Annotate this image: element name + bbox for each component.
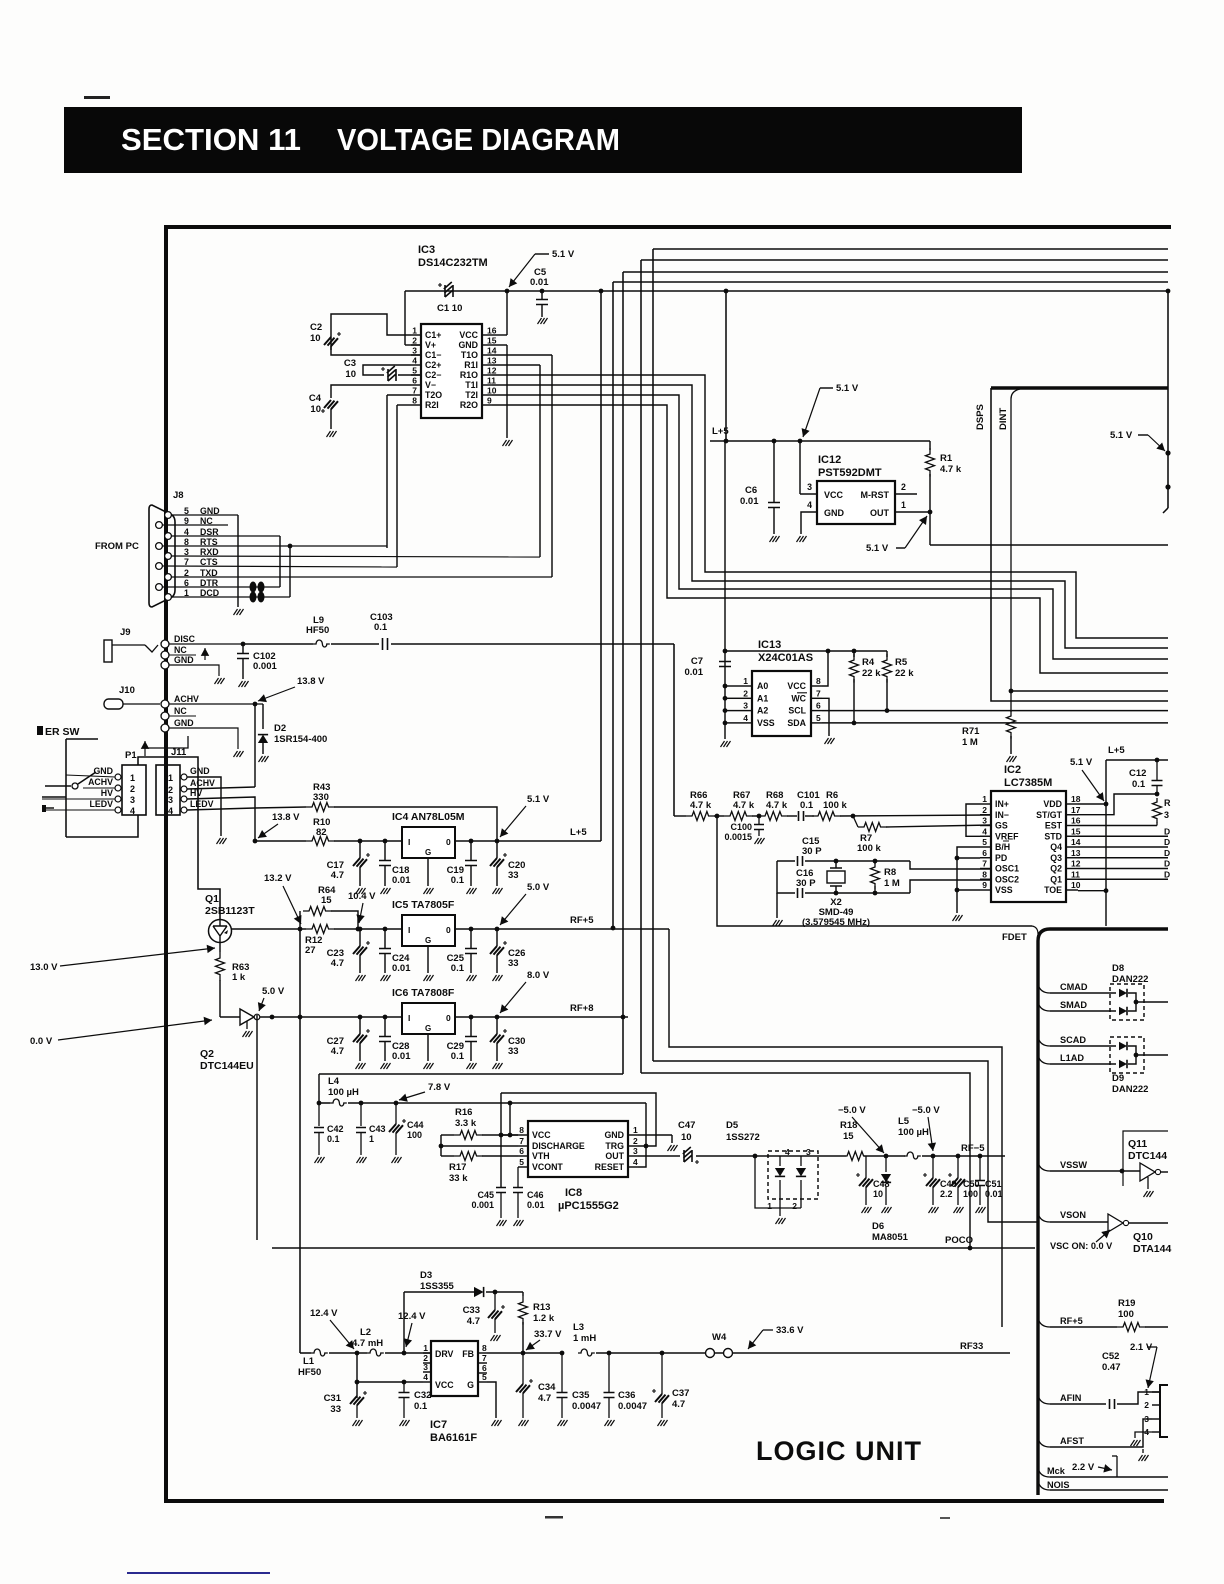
svg-text:4.7: 4.7 <box>331 958 344 969</box>
IC7 pin 3 <box>423 1371 431 1373</box>
IC right edge box (clipped) <box>1160 1385 1168 1437</box>
TRG loop over top <box>501 1093 656 1146</box>
capacitor C23 4.7 <box>358 927 363 932</box>
svg-text:Q10: Q10 <box>1133 1231 1153 1243</box>
svg-text:10: 10 <box>345 369 356 380</box>
svg-text:R19: R19 <box>1118 1298 1135 1309</box>
svg-text:12: 12 <box>487 366 497 376</box>
svg-text:J8: J8 <box>173 490 184 501</box>
svg-text:5.1 V: 5.1 V <box>1070 757 1093 768</box>
svg-text:15: 15 <box>321 895 332 906</box>
svg-text:100 k: 100 k <box>857 843 881 854</box>
svg-text:R18: R18 <box>840 1120 857 1131</box>
svg-text:4.7 k: 4.7 k <box>940 464 962 475</box>
svg-text:C1+: C1+ <box>425 330 441 340</box>
svg-text:RF+5: RF+5 <box>1060 1316 1083 1326</box>
IC3 pin 10 T2I <box>482 394 492 396</box>
svg-text:4.7: 4.7 <box>467 1316 480 1327</box>
svg-text:22 k: 22 k <box>895 668 914 679</box>
IC7 pin 4 <box>423 1381 431 1383</box>
svg-text:33.7 V: 33.7 V <box>534 1329 562 1340</box>
svg-text:C35: C35 <box>572 1390 590 1401</box>
wire J8 CTS <box>162 566 397 567</box>
svg-text:VCC: VCC <box>459 330 478 340</box>
IC3 pin 8 R2I <box>411 404 421 406</box>
svg-text:1 M: 1 M <box>884 878 900 889</box>
svg-text:13.2 V: 13.2 V <box>264 873 292 884</box>
svg-text:OUT: OUT <box>870 508 890 518</box>
wire R1I pin13 to RXD <box>492 364 540 366</box>
IC7 VCC wire <box>357 1381 423 1383</box>
IC7 G pin5 to ground <box>487 1382 496 1418</box>
page header mark <box>84 96 110 99</box>
svg-text:1: 1 <box>1144 1387 1149 1397</box>
svg-text:L+5: L+5 <box>712 426 729 437</box>
svg-text:7: 7 <box>482 1353 487 1363</box>
svg-text:4.7 k: 4.7 k <box>733 800 755 811</box>
svg-text:J10: J10 <box>119 685 135 696</box>
svg-text:1: 1 <box>423 1343 428 1353</box>
svg-text:5.1 V: 5.1 V <box>527 794 550 805</box>
title bar <box>64 107 1022 173</box>
capacitor C26 33 <box>495 927 500 932</box>
svg-text:HV: HV <box>101 788 113 798</box>
svg-text:VDD: VDD <box>1043 799 1062 809</box>
capacitor C18 0.01 <box>383 839 388 844</box>
svg-text:IC4 AN78L05M: IC4 AN78L05M <box>392 811 465 823</box>
svg-text:CTS: CTS <box>200 557 218 567</box>
IC12 pin 4 GND <box>801 512 817 534</box>
IC8 pin 6 VTH <box>518 1155 528 1157</box>
svg-text:0.1: 0.1 <box>451 875 465 886</box>
svg-text:M-RST: M-RST <box>861 490 890 500</box>
crystal X2 SMD-49 <box>834 859 839 864</box>
thick bus line DSPS/DINT <box>991 386 1168 390</box>
IC2 pin 18 VDD <box>1066 803 1078 805</box>
IC2 pin 13 Q3 <box>1066 857 1078 859</box>
J11 pin 1 GND <box>181 774 187 780</box>
svg-text:0.47: 0.47 <box>1102 1362 1121 1373</box>
svg-text:D6: D6 <box>872 1221 884 1232</box>
svg-text:1: 1 <box>412 326 417 336</box>
J9 pin GND <box>161 661 169 669</box>
IC12 pin 2 M-RST <box>895 493 917 495</box>
svg-text:RF33: RF33 <box>960 1341 983 1352</box>
svg-text:1: 1 <box>369 1134 374 1144</box>
svg-text:2: 2 <box>412 336 417 346</box>
P1 pin 3 HV <box>115 796 121 802</box>
IC8 OUT row <box>638 1155 680 1157</box>
svg-text:17: 17 <box>1071 805 1081 815</box>
J11 pin 2 ACHV <box>181 786 187 792</box>
wire DINT vertical <box>1011 389 1020 712</box>
svg-text:4: 4 <box>982 826 987 836</box>
svg-text:18: 18 <box>1071 794 1081 804</box>
svg-text:R4: R4 <box>862 657 875 668</box>
wire P1 ACHV <box>83 787 115 789</box>
svg-text:MA8051: MA8051 <box>872 1232 909 1243</box>
svg-text:4: 4 <box>168 806 173 816</box>
J8 pin 2 TXD <box>165 574 172 581</box>
svg-text:IC12: IC12 <box>818 454 841 466</box>
IC3 pin 7 T2O <box>411 394 421 396</box>
svg-text:0: 0 <box>446 837 451 847</box>
svg-text:0.1: 0.1 <box>451 1051 465 1062</box>
svg-text:0.0 V: 0.0 V <box>30 1036 53 1047</box>
P1 pin 4 LEDV <box>115 807 121 813</box>
svg-text:L3: L3 <box>573 1322 584 1333</box>
svg-text:T2I: T2I <box>465 390 478 400</box>
svg-text:C100: C100 <box>730 822 752 832</box>
svg-text:0.01: 0.01 <box>530 277 549 288</box>
svg-text:L+5: L+5 <box>570 827 587 838</box>
wire VCC pin16 <box>492 334 507 336</box>
wire WC pin7 to ground <box>822 698 829 736</box>
capacitor C4 10 pin6 <box>331 385 411 398</box>
svg-text:10: 10 <box>1071 880 1081 890</box>
svg-text:6: 6 <box>519 1146 524 1156</box>
svg-text:R5: R5 <box>895 657 908 668</box>
wire J11 LEDV to R43 <box>187 808 255 810</box>
svg-text:R1I: R1I <box>464 360 478 370</box>
svg-text:0.1: 0.1 <box>327 1134 340 1144</box>
svg-text:10: 10 <box>310 333 321 344</box>
capacitor C100 0.0015 <box>758 816 760 824</box>
edge IC pin 2 <box>1152 1404 1160 1406</box>
svg-text:4.7 k: 4.7 k <box>766 800 788 811</box>
IC7 pin 8 <box>478 1352 487 1354</box>
svg-text:G: G <box>425 1024 431 1033</box>
wire VSSW stub <box>1038 1162 1050 1171</box>
IC8 pin 1 GND <box>628 1134 638 1136</box>
svg-text:(3.579545 MHz): (3.579545 MHz) <box>802 917 870 928</box>
IC2 pins 1-4 loop <box>966 804 980 836</box>
wire 13.2V down to IC6 and L1 <box>299 929 301 1353</box>
svg-text:3: 3 <box>743 701 748 711</box>
wire L+5 rail IC12 <box>710 440 930 442</box>
resistor R4 22k <box>853 651 855 657</box>
svg-text:−5.0 V: −5.0 V <box>838 1105 866 1116</box>
svg-text:OSC1: OSC1 <box>995 864 1019 874</box>
svg-text:DRV: DRV <box>435 1349 454 1359</box>
svg-text:33: 33 <box>508 1046 519 1057</box>
svg-text:1: 1 <box>168 773 173 783</box>
svg-text:7: 7 <box>519 1136 524 1146</box>
svg-text:9: 9 <box>487 396 492 406</box>
svg-text:ACHV: ACHV <box>190 778 215 788</box>
wire J8 RXD <box>171 556 540 557</box>
svg-text:RESET: RESET <box>595 1162 625 1172</box>
svg-text:G: G <box>425 848 431 857</box>
svg-text:3: 3 <box>130 795 135 805</box>
IC7 pin 5 <box>478 1381 487 1383</box>
svg-text:4: 4 <box>743 713 748 723</box>
IC12 pin 1 OUT <box>895 511 930 513</box>
svg-text:FROM PC: FROM PC <box>95 541 139 552</box>
svg-text:8: 8 <box>482 1343 487 1353</box>
svg-text:R1O: R1O <box>460 370 478 380</box>
capacitor C43 1 <box>359 1101 364 1106</box>
wire D3 verticals <box>403 1292 405 1353</box>
IC3 pin 4 C2+ <box>411 364 421 366</box>
svg-text:GND: GND <box>174 655 194 665</box>
svg-text:27: 27 <box>305 945 316 956</box>
IC3 pin 15 GND <box>482 344 492 346</box>
svg-text:R13: R13 <box>533 1302 550 1313</box>
wire: top bus line 1 <box>653 248 1168 250</box>
svg-text:2: 2 <box>168 785 173 795</box>
svg-text:RF+8: RF+8 <box>570 1003 594 1014</box>
wire GND pin15 to ground <box>492 344 507 346</box>
wire DSPS vertical <box>991 388 1168 701</box>
svg-text:C4: C4 <box>309 393 322 404</box>
wire RF+8 to L4 7.8V line <box>621 1015 626 1020</box>
svg-text:SDA: SDA <box>787 718 806 728</box>
capacitor C33 4.7 <box>493 1290 498 1295</box>
footer line <box>127 1572 270 1574</box>
svg-text:A2: A2 <box>757 706 768 716</box>
svg-text:4: 4 <box>807 500 812 510</box>
svg-text:C2: C2 <box>310 322 322 333</box>
svg-text:W4: W4 <box>712 1332 727 1343</box>
svg-text:D: D <box>1164 826 1170 836</box>
wire J8 RTS <box>162 545 387 547</box>
svg-text:1 mH: 1 mH <box>573 1333 596 1344</box>
resistor R1 4.7k <box>929 441 931 450</box>
svg-text:R1: R1 <box>940 453 953 464</box>
IC2 pin 2 IN&#8722; <box>980 814 991 816</box>
svg-text:ST/GT: ST/GT <box>1036 810 1063 820</box>
IC2 pin 17 ST/GT <box>1066 814 1078 816</box>
wire: top bus line 4 <box>613 281 1168 283</box>
svg-text:0.01: 0.01 <box>740 496 759 507</box>
capacitor C1 10 <box>444 282 453 297</box>
svg-text:C2+: C2+ <box>425 360 441 370</box>
svg-text:10: 10 <box>487 386 497 396</box>
svg-text:R71: R71 <box>962 726 980 737</box>
capacitor C30 33 <box>495 1015 500 1020</box>
svg-text:NC: NC <box>174 706 187 716</box>
svg-text:I: I <box>408 1013 410 1023</box>
wire Q1 collector to 13.2V node <box>231 928 306 930</box>
capacitor C35 0.0047 <box>560 1351 565 1356</box>
svg-text:R16: R16 <box>455 1107 472 1118</box>
svg-text:16: 16 <box>1071 816 1081 826</box>
svg-text:4: 4 <box>785 1147 790 1157</box>
svg-text:SECTION 11: SECTION 11 <box>121 122 301 157</box>
svg-text:8: 8 <box>816 676 821 686</box>
svg-text:5.1 V: 5.1 V <box>1110 430 1133 441</box>
svg-text:SCAD: SCAD <box>1060 1035 1086 1045</box>
edge IC pin 3 <box>1152 1418 1160 1420</box>
svg-text:GND: GND <box>604 1130 624 1140</box>
wire SCAD stub <box>1038 1037 1050 1046</box>
svg-text:GND: GND <box>174 718 194 728</box>
resistor R33 at edge <box>1153 798 1162 823</box>
svg-text:RF−5: RF−5 <box>961 1143 985 1154</box>
IC5 ground pin <box>427 946 429 973</box>
svg-text:C45: C45 <box>477 1190 494 1200</box>
svg-text:GND: GND <box>190 766 210 776</box>
svg-text:A1: A1 <box>757 693 768 703</box>
IC12 pin 3 VCC <box>799 441 801 494</box>
IC3 pin 11 T1I <box>482 384 492 386</box>
wire NOIS stub <box>1038 1481 1050 1490</box>
svg-text:IC2: IC2 <box>1004 764 1021 776</box>
svg-text:IN+: IN+ <box>995 799 1009 809</box>
svg-text:2: 2 <box>633 1136 638 1146</box>
IC13 pin 6 SCL <box>811 710 822 712</box>
svg-text:30 P: 30 P <box>802 846 822 857</box>
svg-text:VREF: VREF <box>995 831 1019 841</box>
svg-text:82: 82 <box>316 827 327 838</box>
capacitor C103 0.1 <box>331 643 379 645</box>
svg-text:D5: D5 <box>726 1120 739 1131</box>
resistor R8 1M <box>873 859 878 864</box>
svg-text:33.6 V: 33.6 V <box>776 1325 804 1336</box>
IC13 pin 4 VSS <box>740 722 752 724</box>
wire R4/R5 top line <box>725 650 887 652</box>
svg-text:SCL: SCL <box>788 706 806 716</box>
IC2 output rows to edge <box>1078 835 1168 837</box>
svg-text:−5.0 V: −5.0 V <box>912 1105 940 1116</box>
transistor Q11 DTC144 <box>1123 1131 1168 1186</box>
capacitor C32 0.1 <box>402 1380 407 1385</box>
wire J9 NC stub <box>169 654 196 656</box>
svg-text:100 µH: 100 µH <box>328 1087 359 1098</box>
svg-text:DSPS: DSPS <box>975 404 986 430</box>
wire P1 GND <box>66 775 115 777</box>
edge IC pin 4 <box>1152 1431 1160 1433</box>
diode D2 1SR154-400 <box>262 704 264 729</box>
capacitor C2 10 loop pins1-3 <box>331 314 411 350</box>
svg-text:2.2: 2.2 <box>940 1189 953 1199</box>
svg-text:OUT: OUT <box>605 1151 624 1161</box>
svg-text:VCC: VCC <box>824 490 844 500</box>
wire: L+5 drop from rail <box>599 289 604 294</box>
svg-text:C43: C43 <box>369 1124 386 1134</box>
IC3 pin 9 R2O <box>482 404 492 406</box>
svg-text:8: 8 <box>519 1125 524 1135</box>
wire reset line to right edge <box>930 544 1168 546</box>
svg-text:IC6 TA7808F: IC6 TA7808F <box>392 987 455 999</box>
svg-text:11: 11 <box>1071 869 1080 879</box>
capacitor C34 4.7 <box>522 1353 524 1384</box>
svg-text:330: 330 <box>313 792 329 803</box>
svg-text:0: 0 <box>446 1013 451 1023</box>
capacitor C44 100 <box>395 1103 397 1124</box>
capacitor C3 10 pins4-5 <box>363 365 411 375</box>
svg-text:3: 3 <box>982 816 987 826</box>
svg-text:STD: STD <box>1044 831 1062 841</box>
svg-text:C31: C31 <box>324 1393 342 1404</box>
resistor R71 1M <box>1007 710 1016 739</box>
svg-text:WC: WC <box>791 693 806 703</box>
IC3 pin 5 C2&#8722; <box>411 374 421 376</box>
wire AFST stub <box>1038 1438 1050 1447</box>
svg-text:0.01: 0.01 <box>685 667 704 678</box>
svg-text:1: 1 <box>901 500 906 510</box>
svg-text:11: 11 <box>487 376 496 386</box>
wire RF+5 stub <box>1038 1318 1050 1327</box>
svg-text:4.7 mH: 4.7 mH <box>352 1338 383 1349</box>
IC7 pin 2 <box>423 1362 431 1364</box>
J10 pin ACHV <box>161 700 169 708</box>
svg-text:0: 0 <box>446 925 451 935</box>
wire J9 GND <box>169 665 219 676</box>
capacitor C5 0.01 <box>505 289 510 294</box>
wire J8 GND <box>171 514 238 516</box>
thick bus FDET corner <box>1038 929 1168 1495</box>
svg-text:33: 33 <box>508 958 519 969</box>
svg-text:T1I: T1I <box>465 380 478 390</box>
svg-text:FDET: FDET <box>1002 932 1027 943</box>
svg-text:12: 12 <box>1071 859 1081 869</box>
IC3 pin 3 C1&#8722; <box>411 354 421 356</box>
wire Q2 out down to POCO <box>256 1015 258 1240</box>
J8 pin 3 RXD <box>165 553 172 560</box>
IC2 pin 6 PD <box>980 857 991 859</box>
IC3 pin 1 C1+ <box>411 334 421 336</box>
svg-text:4.7: 4.7 <box>331 1046 344 1057</box>
svg-text:Q1: Q1 <box>1050 874 1062 884</box>
svg-text:R2O: R2O <box>460 400 478 410</box>
svg-text:VCC: VCC <box>787 681 806 691</box>
capacitor C37 4.7 <box>660 1351 665 1356</box>
resistor R5 22k <box>886 651 888 657</box>
svg-text:VOLTAGE DIAGRAM: VOLTAGE DIAGRAM <box>337 122 620 157</box>
svg-text:5.1 V: 5.1 V <box>836 383 859 394</box>
wire AFIN stub <box>1038 1395 1050 1404</box>
bus vertical 640 to POCO <box>641 1073 970 1248</box>
IC13 pin 5 SDA <box>811 722 822 724</box>
svg-text:G: G <box>425 936 431 945</box>
capacitor C48 10 <box>865 1156 867 1178</box>
capacitor C42 0.1 <box>318 1103 320 1126</box>
IC2 pin 7 OSC1 <box>980 868 991 870</box>
svg-text:BA6161F: BA6161F <box>430 1432 477 1444</box>
svg-text:5.0 V: 5.0 V <box>527 882 550 893</box>
op IC8 uPC1555G2 <box>528 1121 628 1177</box>
svg-text:10: 10 <box>681 1132 692 1143</box>
svg-text:DS14C232TM: DS14C232TM <box>418 257 488 269</box>
svg-text:C46: C46 <box>527 1190 544 1200</box>
svg-text:3: 3 <box>423 1362 428 1372</box>
svg-text:Q1: Q1 <box>205 893 219 905</box>
svg-text:RF+5: RF+5 <box>570 915 594 926</box>
svg-text:5: 5 <box>412 366 417 376</box>
edge IC pin 1 <box>1152 1391 1160 1393</box>
svg-text:C37: C37 <box>672 1388 689 1399</box>
svg-text:0.01: 0.01 <box>392 1051 411 1062</box>
svg-text:0.1: 0.1 <box>451 963 465 974</box>
svg-text:Q4: Q4 <box>1050 842 1062 852</box>
RESET tie to 7.8V <box>638 1103 646 1167</box>
svg-text:8: 8 <box>412 396 417 406</box>
svg-text:1: 1 <box>130 773 135 783</box>
svg-text:P1: P1 <box>125 750 137 761</box>
wire J8 DCD <box>171 596 290 598</box>
svg-text:1.2 k: 1.2 k <box>533 1313 555 1324</box>
J9 pin DISC <box>161 640 169 648</box>
svg-text:TRG: TRG <box>605 1141 624 1151</box>
IC13 pin 7 WC <box>811 697 822 699</box>
svg-text:100 k: 100 k <box>823 800 847 811</box>
IC8 pin 3 OUT <box>628 1155 638 1157</box>
svg-text:C2−: C2− <box>425 370 441 380</box>
wire J11 ACHV <box>187 787 255 789</box>
IC2 pin 16 EST <box>1066 825 1078 827</box>
